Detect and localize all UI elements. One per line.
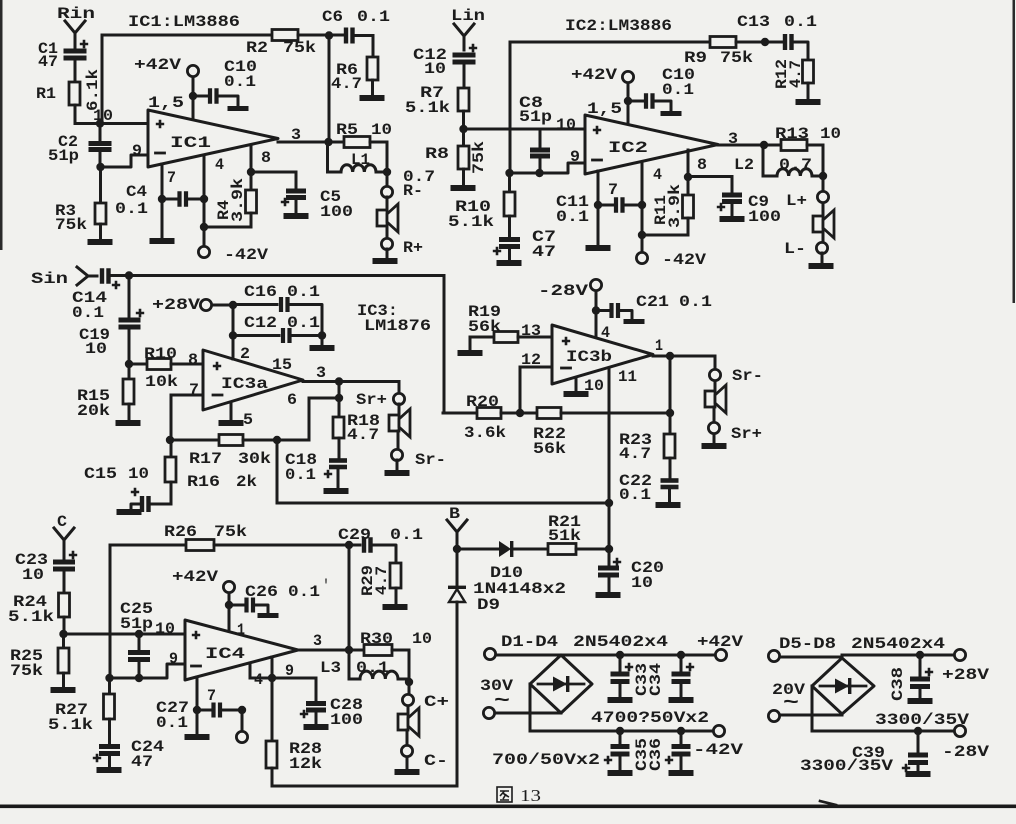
wire R26row	[110, 544, 186, 547]
speaker Sr'	[705, 391, 715, 407]
resistor R21	[548, 544, 576, 555]
resistor R6	[367, 57, 378, 80]
speaker Sr	[389, 415, 399, 431]
wire	[495, 712, 561, 715]
inductor L3	[348, 650, 351, 679]
svg-text:3300/35V: 3300/35V	[800, 757, 893, 775]
node B	[96, 163, 104, 171]
speaker R	[377, 210, 387, 226]
svg-text:0.1: 0.1	[224, 73, 256, 91]
capacitor C23	[69, 551, 77, 559]
capacitor C7	[499, 237, 520, 242]
svg-text:8: 8	[261, 149, 271, 167]
svg-text:3: 3	[316, 364, 326, 382]
wire	[714, 381, 717, 390]
ground	[51, 687, 76, 693]
plus input	[593, 126, 601, 134]
node IN4	[59, 630, 67, 638]
ground	[720, 216, 745, 222]
capacitor C34	[680, 655, 683, 671]
terminal AC2b	[768, 710, 779, 721]
svg-text:10: 10	[371, 121, 392, 139]
wire	[822, 203, 825, 216]
svg-text:1: 1	[655, 337, 663, 355]
svg-text:R1: R1	[36, 85, 56, 103]
svg-text:R+: R+	[403, 239, 423, 257]
capacitor C27	[197, 709, 210, 712]
input jack Lin	[454, 24, 474, 50]
svg-text:C6: C6	[322, 8, 343, 26]
node C20top	[605, 545, 613, 553]
capacitor C12in	[469, 44, 477, 52]
wire	[406, 730, 409, 745]
node C29L	[345, 541, 353, 549]
wire	[509, 42, 512, 173]
svg-text:Sr-: Sr-	[732, 367, 763, 385]
resistor R22	[501, 412, 537, 415]
svg-text:56k: 56k	[533, 440, 566, 458]
node C4L	[158, 195, 166, 203]
inductor L2	[762, 145, 765, 176]
wire	[641, 205, 644, 235]
bridge rectifier D1-D4	[530, 655, 592, 713]
svg-text:0.1: 0.1	[287, 283, 320, 301]
resistor R27	[108, 678, 111, 694]
svg-text:-42V: -42V	[662, 251, 706, 269]
wire	[241, 710, 244, 731]
svg-text:0.1: 0.1	[390, 526, 423, 544]
svg-text:4: 4	[215, 156, 224, 174]
svg-text:R2: R2	[246, 39, 268, 57]
wire pin8	[687, 150, 690, 177]
svg-text:7: 7	[189, 381, 199, 399]
input jack Sin	[77, 267, 97, 285]
wire	[496, 654, 561, 657]
svg-text:IC4: IC4	[205, 645, 246, 663]
svg-text:Sr+: Sr+	[731, 425, 762, 443]
node C11L	[594, 201, 602, 209]
svg-text:0.1: 0.1	[556, 208, 589, 226]
svg-text:75k: 75k	[283, 39, 316, 57]
ground	[97, 767, 122, 773]
node OUT3a	[335, 377, 343, 385]
svg-text:+42V: +42V	[172, 568, 218, 586]
wire	[386, 197, 389, 210]
terminal AC2a	[768, 650, 779, 661]
svg-text:5.1k: 5.1k	[448, 213, 494, 231]
svg-text:56k: 56k	[468, 318, 501, 336]
svg-text:3: 3	[313, 632, 322, 650]
wire	[110, 664, 186, 678]
resistor R16	[170, 440, 173, 457]
svg-text:4.7: 4.7	[787, 60, 805, 88]
svg-text:5: 5	[243, 411, 253, 429]
resistor R23	[669, 413, 672, 434]
wire	[397, 431, 400, 449]
capacitor C1	[80, 40, 88, 48]
wire pin7	[161, 164, 164, 199]
resistor R10'	[508, 173, 511, 192]
svg-text:75k: 75k	[470, 141, 488, 174]
svg-text:1,5: 1,5	[148, 94, 184, 112]
svg-text:10: 10	[556, 116, 576, 134]
wire	[713, 434, 716, 442]
capacitor C6	[344, 28, 348, 44]
svg-text:R5: R5	[336, 121, 358, 139]
terminal L-	[816, 242, 827, 253]
wire	[386, 142, 389, 172]
svg-text:R20: R20	[466, 393, 499, 411]
diode D9	[456, 549, 459, 589]
svg-text:51p: 51p	[48, 147, 79, 165]
wire	[328, 36, 331, 143]
svg-text:C-: C-	[424, 752, 448, 770]
wire	[386, 226, 389, 239]
terminal C+	[402, 694, 413, 705]
speaker C	[398, 714, 408, 730]
wire	[101, 35, 104, 123]
svg-text:10k: 10k	[145, 373, 178, 391]
svg-text:11: 11	[618, 368, 637, 386]
svg-text:0.1: 0.1	[72, 304, 104, 322]
svg-text:C13: C13	[737, 13, 770, 31]
terminal -42V	[713, 725, 724, 736]
ground	[796, 99, 821, 105]
resistor R11	[687, 177, 690, 195]
diode D10	[457, 548, 499, 551]
svg-text:+42V: +42V	[134, 56, 181, 74]
svg-text:~: ~	[783, 692, 799, 715]
svg-text:R17: R17	[189, 450, 222, 468]
node OUT4	[345, 646, 353, 654]
resistor R25	[62, 634, 65, 648]
ground	[809, 263, 834, 269]
svg-text:LM1876: LM1876	[364, 317, 431, 335]
svg-text:R10: R10	[144, 345, 177, 363]
svg-text:0.1: 0.1	[356, 659, 389, 677]
capacitor C29	[349, 544, 360, 547]
svg-text:Rin: Rin	[57, 5, 95, 23]
plus input	[156, 120, 164, 128]
svg-text:0.1: 0.1	[784, 13, 817, 31]
node R11top	[684, 173, 692, 181]
capacitor C5	[251, 171, 296, 174]
wire	[822, 232, 825, 242]
svg-text:IC1:LM3886: IC1:LM3886	[128, 13, 240, 31]
inductor L1	[326, 142, 329, 172]
svg-text:12: 12	[521, 351, 541, 369]
terminal -42V	[636, 252, 647, 263]
svg-text:4: 4	[653, 166, 662, 184]
node SinN	[125, 271, 133, 279]
ground	[451, 185, 476, 191]
svg-text:7: 7	[608, 181, 618, 199]
terminal -V4	[236, 731, 247, 742]
terminal Sr+	[393, 393, 404, 404]
svg-text:47: 47	[532, 243, 556, 261]
svg-text:9: 9	[570, 148, 580, 166]
terminal Sr+	[708, 422, 719, 433]
wire	[510, 41, 710, 44]
wire	[842, 654, 954, 657]
svg-text:IC3a: IC3a	[221, 375, 268, 393]
input jack B	[447, 520, 467, 549]
svg-text:10: 10	[128, 465, 149, 483]
ground	[385, 470, 410, 476]
ground	[258, 613, 279, 618]
wire	[228, 593, 231, 631]
svg-text:C36: C36	[647, 738, 665, 771]
capacitor C19	[128, 276, 131, 319]
svg-text:0.7: 0.7	[779, 156, 812, 174]
resistor R12	[803, 60, 814, 83]
ground	[908, 698, 933, 704]
wire	[272, 785, 457, 788]
svg-text:30k: 30k	[238, 450, 271, 468]
ground	[304, 724, 329, 730]
svg-text:10: 10	[584, 377, 604, 395]
wire	[736, 41, 783, 44]
wire out3a	[303, 380, 399, 383]
svg-text:R9: R9	[684, 49, 707, 67]
resistor R26	[186, 540, 214, 551]
resistor R24	[59, 593, 70, 617]
svg-text:4700?50Vx2: 4700?50Vx2	[591, 709, 709, 727]
svg-text:7: 7	[207, 687, 216, 705]
wire out3b	[653, 355, 715, 358]
svg-text:75k: 75k	[720, 49, 753, 67]
svg-text:L+: L+	[786, 192, 807, 210]
wire	[510, 163, 586, 173]
wire	[102, 34, 272, 37]
resistor R15	[128, 364, 131, 379]
svg-text:8: 8	[188, 351, 198, 369]
wire pin11	[608, 368, 611, 503]
wire	[0, 805, 1016, 809]
wire	[75, 122, 148, 125]
node IN3	[125, 360, 133, 368]
svg-text:Sr-: Sr-	[415, 451, 446, 469]
svg-text:0.1: 0.1	[285, 466, 316, 484]
svg-text:0.1: 0.1	[288, 583, 320, 601]
wire	[821, 253, 824, 262]
minus input	[156, 152, 165, 155]
ground	[88, 239, 113, 245]
svg-text:9: 9	[132, 142, 142, 160]
resistor R2	[272, 30, 298, 41]
op-amp IC3a	[203, 350, 303, 410]
capacitor C38	[919, 655, 922, 676]
svg-text:47: 47	[131, 753, 153, 771]
wire	[396, 460, 399, 469]
node OUT2	[760, 141, 768, 149]
wire	[811, 686, 814, 731]
wire	[386, 172, 389, 187]
svg-text:10: 10	[22, 566, 44, 584]
svg-text:C4: C4	[126, 183, 147, 201]
svg-text:0.1: 0.1	[662, 81, 694, 99]
svg-text:75k: 75k	[55, 216, 87, 234]
terminal Sr-	[391, 449, 402, 460]
wire pin7	[196, 677, 199, 710]
capacitor C16	[233, 303, 277, 306]
svg-text:9: 9	[169, 650, 178, 668]
minus input	[562, 367, 571, 370]
resistor R28	[271, 678, 274, 741]
svg-text:C34: C34	[647, 663, 665, 696]
svg-text:IC3b: IC3b	[566, 348, 612, 366]
svg-text:1: 1	[237, 621, 245, 639]
op-amp IC2	[585, 115, 718, 174]
svg-text:13: 13	[520, 786, 541, 805]
wire pin9b	[271, 657, 274, 678]
ground	[624, 319, 645, 324]
node OUT3b	[666, 352, 674, 360]
resistor R3	[99, 167, 102, 203]
wire	[0, 0, 3, 250]
svg-text:5.1k: 5.1k	[48, 716, 93, 734]
capacitor C4	[162, 198, 176, 201]
terminal R-	[381, 186, 392, 197]
wire	[129, 274, 444, 277]
node C27L	[193, 706, 201, 714]
capacitor C13	[783, 34, 787, 50]
svg-text:D5-D8: D5-D8	[779, 635, 836, 653]
svg-text:0.1: 0.1	[679, 293, 712, 311]
svg-text:C: C	[57, 513, 67, 531]
capacitor C21	[596, 309, 608, 312]
svg-text:7: 7	[167, 169, 176, 187]
svg-text:75k: 75k	[10, 662, 43, 680]
wire bus B	[277, 502, 609, 505]
wire	[192, 77, 195, 119]
node C4R	[200, 195, 208, 203]
svg-text:L1: L1	[351, 151, 370, 169]
svg-text:D1-D4: D1-D4	[501, 633, 558, 651]
svg-text:100: 100	[330, 711, 363, 729]
capacitor C33	[619, 655, 622, 671]
terminal -42V	[198, 246, 209, 257]
svg-text:3: 3	[728, 130, 738, 148]
capacitor C8	[539, 129, 542, 148]
ground	[150, 238, 175, 244]
capacitor C28	[315, 678, 318, 701]
svg-text:C12: C12	[244, 314, 277, 332]
ground	[608, 697, 633, 703]
svg-text:0.1: 0.1	[287, 314, 320, 332]
svg-text:3.9k: 3.9k	[666, 184, 684, 228]
svg-text:B: B	[449, 505, 460, 523]
svg-text:R26: R26	[164, 523, 197, 541]
wire	[161, 199, 164, 237]
svg-text:4: 4	[601, 324, 610, 342]
ground	[702, 443, 727, 449]
wire pin6	[308, 398, 311, 440]
wire	[780, 656, 842, 659]
terminal AC1b	[483, 707, 494, 718]
node R10'top	[505, 169, 513, 177]
resistor R9	[710, 37, 736, 48]
ground	[324, 488, 349, 494]
node R23top	[666, 409, 674, 417]
svg-text:C26: C26	[245, 583, 278, 601]
ground	[117, 509, 142, 515]
capacitor C12'	[233, 334, 279, 337]
wire	[250, 677, 316, 680]
wire	[398, 404, 401, 415]
resistor R10a	[129, 363, 147, 366]
svg-text:5.1k: 5.1k	[405, 99, 450, 117]
svg-text:2: 2	[240, 345, 250, 363]
resistor R19	[458, 350, 483, 356]
ground	[656, 502, 681, 508]
ground pin5	[230, 404, 233, 419]
wire	[64, 633, 186, 636]
wire pin12	[520, 366, 552, 369]
plus input	[213, 362, 221, 370]
wire pin4	[249, 663, 252, 678]
wire	[595, 291, 598, 338]
svg-text:L2: L2	[734, 156, 754, 174]
svg-text:10: 10	[85, 340, 107, 358]
resistor R5	[328, 141, 344, 144]
svg-text:L3: L3	[320, 659, 341, 677]
ground	[395, 769, 420, 775]
speaker L	[813, 216, 823, 232]
capacitor C36	[680, 731, 683, 744]
input jack Rin	[65, 21, 85, 48]
ground	[284, 213, 309, 219]
wire fb	[443, 412, 477, 415]
svg-text:R30: R30	[360, 630, 393, 648]
svg-text:-28V: -28V	[942, 743, 989, 761]
node FB4	[105, 674, 113, 682]
op-amp IC4	[185, 620, 298, 680]
node C25top	[135, 630, 143, 638]
svg-text:+42V: +42V	[571, 66, 617, 84]
minus input	[213, 394, 222, 397]
ground	[360, 95, 385, 101]
svg-text:10: 10	[412, 630, 432, 648]
ground	[669, 697, 694, 703]
node L1R	[383, 168, 391, 176]
svg-text:C15: C15	[84, 465, 117, 483]
wire	[408, 650, 411, 682]
svg-text:5.1k: 5.1k	[8, 608, 54, 626]
svg-text:4.7: 4.7	[373, 566, 391, 595]
terminal +28V	[954, 649, 965, 660]
svg-text:10: 10	[820, 125, 841, 143]
node C16R	[318, 331, 326, 339]
terminal C-	[401, 745, 412, 756]
node R28top	[268, 674, 276, 682]
svg-text:4: 4	[254, 671, 263, 689]
wire	[529, 684, 532, 731]
wire out4	[298, 649, 349, 652]
ground	[116, 420, 141, 426]
wire	[232, 305, 235, 359]
minus input	[192, 665, 201, 668]
svg-text:Sr+: Sr+	[356, 391, 387, 409]
plus input	[562, 337, 570, 345]
wire	[196, 710, 199, 733]
svg-text:51p: 51p	[120, 615, 153, 633]
capacitor C26	[229, 604, 243, 607]
capacitor C25	[138, 634, 141, 650]
capacitor C24	[99, 744, 120, 749]
svg-text:R13: R13	[775, 125, 809, 143]
node C11R	[638, 201, 646, 209]
